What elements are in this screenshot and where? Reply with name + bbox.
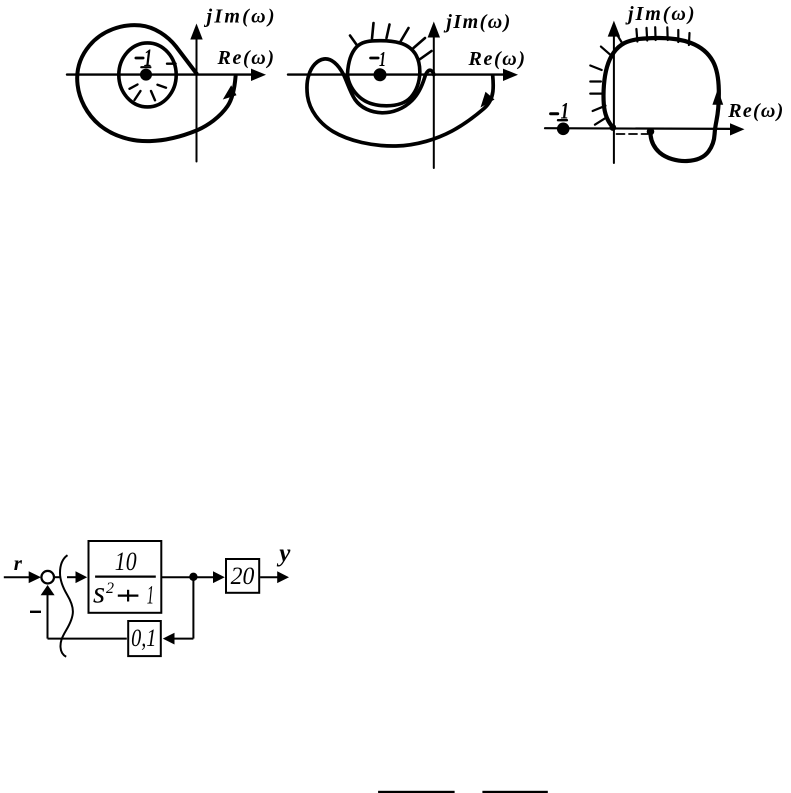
origin blob D3 xyxy=(609,124,616,131)
arrowhead on curve D1 xyxy=(223,85,237,99)
minus of -1 label D1 xyxy=(136,57,143,60)
axis jIm vertical D1 xyxy=(196,36,198,162)
plus sign in block G xyxy=(118,594,139,596)
svg-text:20: 20 xyxy=(231,563,255,590)
point -1 dot D2 xyxy=(374,68,387,81)
underline of -1 label D1 xyxy=(141,66,150,68)
feedback wire down from junction xyxy=(192,579,194,639)
arrowhead Re axis D1 xyxy=(251,69,266,81)
minus of -1 label D2 xyxy=(371,57,379,60)
hatch tick D2 a xyxy=(350,36,358,47)
hatch tick D3 top5 xyxy=(677,30,679,42)
svg-text:s: s xyxy=(93,575,105,610)
svg-text:y: y xyxy=(276,540,291,567)
arrowhead Re axis D2 xyxy=(503,69,518,81)
nyquist curve outer loop D1 xyxy=(77,25,235,141)
hatch tick D3 upper-left xyxy=(601,47,613,58)
hatch tick D3 lower-left1 xyxy=(593,106,606,111)
hatch tick D3 left1 xyxy=(590,66,601,71)
hatch tick D3 left3 xyxy=(590,92,601,94)
svg-text:1: 1 xyxy=(147,581,154,610)
hatch tick D1 b xyxy=(135,91,141,100)
axis Re horizontal D3 xyxy=(545,127,732,130)
underline of -1 label D3 xyxy=(558,119,567,121)
svg-text:Re(ω): Re(ω) xyxy=(217,47,275,69)
arrowhead into block 20 xyxy=(213,571,225,583)
hatch tick D3 top1 xyxy=(636,29,637,42)
arrowhead into block 01 xyxy=(163,633,175,645)
svg-text:jIm(ω): jIm(ω) xyxy=(443,11,510,33)
fraction bar in block G xyxy=(95,575,156,577)
arrowhead jIm axis D3 xyxy=(608,21,620,37)
summing junction circle xyxy=(41,571,54,584)
block 20 rectangle xyxy=(226,559,259,593)
hatch tick D3 top2 xyxy=(645,28,648,41)
arrowhead on curve D2 xyxy=(481,92,495,108)
svg-text:1: 1 xyxy=(144,45,153,72)
arrowhead jIm axis D1 xyxy=(190,24,202,40)
svg-text:jIm(ω): jIm(ω) xyxy=(625,3,695,25)
hatch tick D2 c xyxy=(387,25,390,39)
fraction bar bottom left xyxy=(378,791,455,793)
detour dot D3 xyxy=(647,128,655,136)
circle around -1 D2 xyxy=(348,41,420,106)
axis Re horizontal D1 xyxy=(67,73,253,75)
axis jIm vertical D3 xyxy=(613,33,615,163)
arrowhead jIm axis D2 xyxy=(428,22,440,38)
nyquist curve D2 xyxy=(307,59,493,146)
hatch tick D2 d xyxy=(401,28,409,42)
arrowhead into block G xyxy=(76,571,88,583)
hatch tick D2 b xyxy=(372,23,374,39)
fraction bar bottom right xyxy=(482,791,547,793)
wire brace to block G arrow xyxy=(67,576,77,578)
svg-text:jIm(ω): jIm(ω) xyxy=(204,6,275,28)
arrowhead into summer bottom xyxy=(41,585,55,595)
nyquist contour D3 xyxy=(604,38,719,161)
svg-text:1: 1 xyxy=(561,99,570,124)
arrowhead output y xyxy=(277,571,289,583)
hatch tick D2 f xyxy=(420,51,432,60)
axis Re horizontal D2 xyxy=(288,73,505,75)
hatch tick D3 top4 xyxy=(666,27,669,40)
block G rectangle xyxy=(89,541,162,613)
junction dot xyxy=(189,573,197,581)
hatch tick D3 corner xyxy=(617,34,623,44)
cut brace squiggle xyxy=(60,555,73,657)
hatch tick D3 left2 xyxy=(590,80,601,82)
hatch tick D2 e xyxy=(414,38,426,48)
svg-text:10: 10 xyxy=(115,547,137,576)
hatch tick D1 a xyxy=(130,85,138,89)
svg-text:Re(ω): Re(ω) xyxy=(727,100,783,122)
hatch tick D1 c xyxy=(151,91,155,100)
point -1 dot D1 xyxy=(140,69,152,81)
svg-text:0,1: 0,1 xyxy=(131,625,156,652)
output wire y xyxy=(260,576,278,578)
wire summer to brace xyxy=(54,576,61,578)
small dash right inside circle D1 xyxy=(167,63,176,65)
feedback wire to block 01 xyxy=(174,638,193,640)
hatch tick D3 top6 xyxy=(688,33,691,45)
feedback wire up to summer xyxy=(47,595,49,639)
point -1 dot D3 xyxy=(557,123,570,136)
svg-text:1: 1 xyxy=(379,47,386,71)
hatch tick D3 lower-left2 xyxy=(595,117,607,125)
svg-text:Re(ω): Re(ω) xyxy=(468,48,526,70)
arrowhead on contour D3 (up) xyxy=(712,89,723,105)
input wire r xyxy=(4,576,30,578)
svg-text:r: r xyxy=(14,551,23,575)
hatch tick D1 d xyxy=(158,85,167,88)
minus sign at summer xyxy=(30,611,41,613)
feedback wire left from block 01 xyxy=(48,638,127,640)
arrowhead Re axis D3 xyxy=(730,123,745,135)
hatched circle around -1 D1 xyxy=(119,43,176,107)
axis jIm vertical D2 xyxy=(433,34,435,168)
block 01 rectangle xyxy=(128,621,161,656)
minus of -1 label D3 xyxy=(551,112,558,115)
svg-text:2: 2 xyxy=(106,580,114,597)
arrowhead into summer xyxy=(29,571,41,583)
wire block G to junction and block 20 xyxy=(162,576,214,578)
dashed line to detour dot D3 xyxy=(617,133,649,135)
hatch tick D3 top3 xyxy=(654,27,657,40)
